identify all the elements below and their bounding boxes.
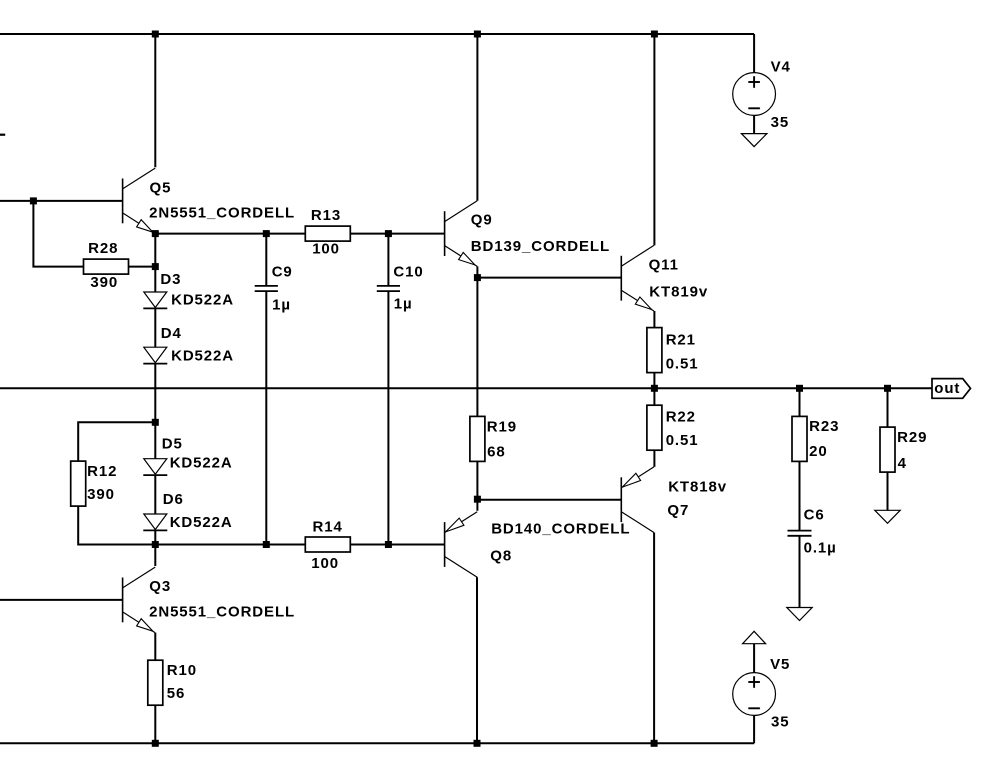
wire Q7 collector to bottom rail xyxy=(653,533,655,744)
wire V5 minus to bottom rail xyxy=(753,715,755,743)
diode D5 (KD522A) xyxy=(143,459,167,475)
wire output rail to R23 xyxy=(799,388,801,416)
junction C10 top xyxy=(385,230,392,237)
svg-text:KT818v: KT818v xyxy=(668,478,727,495)
svg-text:Q3: Q3 xyxy=(149,578,171,595)
svg-text:Q11: Q11 xyxy=(649,257,679,274)
junction bottom rail / R10 xyxy=(152,740,159,747)
svg-text:KD522A: KD522A xyxy=(170,514,233,531)
svg-text:Q5: Q5 xyxy=(150,180,172,197)
junction Q5 emitter node xyxy=(152,230,159,237)
transistor Q11 (KT819v) xyxy=(621,245,654,311)
capacitor C6 xyxy=(788,531,812,536)
resistor R29 xyxy=(880,427,895,472)
wire R19 to lower driver node xyxy=(476,461,478,499)
svg-text:R14: R14 xyxy=(313,519,343,536)
svg-text:0.1µ: 0.1µ xyxy=(804,539,837,556)
wire Q5 emitter node to D3 xyxy=(154,234,156,292)
diode D6 (KD522A) xyxy=(143,514,167,530)
svg-text:20: 20 xyxy=(809,443,828,460)
junction output rail / R21-R22 xyxy=(651,385,658,392)
wire D6 to lower bias node xyxy=(154,531,156,545)
transistor Q5 (2N5551) xyxy=(123,168,156,234)
wire R14 to Q8 base xyxy=(350,544,444,546)
resistor R10 xyxy=(148,660,163,705)
wire D5 to D6 xyxy=(154,476,156,514)
wire bias node to R12 top xyxy=(78,422,155,461)
wire Q3 base xyxy=(0,599,123,601)
wire node to R19 (crosses output rail) xyxy=(476,278,478,417)
svg-text:C10: C10 xyxy=(393,263,423,280)
wire R13 to Q9 base xyxy=(350,233,444,235)
wire lower driver node to Q8 emitter xyxy=(476,499,478,511)
svg-text:C9: C9 xyxy=(272,264,293,281)
wire R23 to C6 xyxy=(799,461,801,530)
svg-text:D4: D4 xyxy=(161,325,182,342)
junction C9 top xyxy=(263,230,270,237)
svg-text:R21: R21 xyxy=(666,332,696,349)
svg-text:4: 4 xyxy=(898,455,907,472)
voltage source V5 xyxy=(733,673,776,716)
junction top rail / Q11 collector xyxy=(651,31,658,38)
junction R28 / diode column xyxy=(152,263,159,270)
wire C9 top lead xyxy=(265,234,267,286)
svg-text:R22: R22 xyxy=(666,408,696,425)
wire V4 top lead xyxy=(753,34,755,73)
resistor R23 xyxy=(792,416,807,461)
svg-text:D6: D6 xyxy=(163,491,184,508)
svg-text:KD522A: KD522A xyxy=(170,455,233,472)
svg-text:56: 56 xyxy=(167,685,186,702)
wire C10 bottom lead xyxy=(387,291,389,544)
wire driver node to Q11 base xyxy=(477,277,621,279)
resistor R21 xyxy=(647,328,662,373)
junction Q9 emitter node xyxy=(474,274,481,281)
wire Q11 collector to top rail xyxy=(653,34,655,245)
svg-text:R28: R28 xyxy=(88,240,118,257)
wire Q11 emitter to R21 xyxy=(653,311,655,328)
junction top rail / Q5 collector xyxy=(152,31,159,38)
wire R22 to Q7 emitter xyxy=(653,450,655,467)
svg-text:out: out xyxy=(934,380,960,397)
wire Q5 base xyxy=(0,200,123,202)
wire output rail to R22 xyxy=(653,388,655,405)
diode D4 (KD522A) xyxy=(143,347,167,363)
svg-text:R13: R13 xyxy=(311,207,341,224)
wire C6 to ground xyxy=(799,536,801,608)
wire bottom supply rail xyxy=(0,742,754,744)
svg-text:390: 390 xyxy=(90,274,118,291)
wire Q9 collector to top rail xyxy=(476,34,478,201)
transistor Q9 (BD139) xyxy=(445,201,478,267)
wire V4 minus lead xyxy=(753,115,755,133)
resistor R19 xyxy=(470,416,485,461)
svg-text:35: 35 xyxy=(771,114,790,131)
resistor R14 xyxy=(305,537,350,552)
svg-text:R10: R10 xyxy=(167,662,197,679)
wire Q5 base to R28 xyxy=(33,201,83,267)
wire output rail to R29 xyxy=(887,388,889,427)
wire R21 to output rail xyxy=(653,373,655,389)
wire Q9 emitter to node xyxy=(476,266,478,277)
junction bias node upper xyxy=(152,419,159,426)
node out (output flag) xyxy=(932,379,971,399)
svg-text:V5: V5 xyxy=(770,656,790,673)
svg-text:100: 100 xyxy=(312,241,340,258)
wire top supply rail xyxy=(0,33,754,35)
svg-text:Q7: Q7 xyxy=(667,502,689,519)
resistor R12 xyxy=(71,461,86,506)
wire stub at left edge (cropped minus sign) xyxy=(0,134,5,136)
wire lower node to R14 xyxy=(155,544,305,546)
svg-text:R29: R29 xyxy=(897,429,927,446)
resistor R28 xyxy=(84,259,129,274)
node arrow above V5 xyxy=(743,631,766,643)
ground below R29 xyxy=(875,510,900,523)
junction output rail / R29 xyxy=(884,385,891,392)
svg-text:Q8: Q8 xyxy=(490,547,512,564)
junction lower bias node xyxy=(152,541,159,548)
transistor Q7 (KT818v) xyxy=(621,467,654,533)
svg-text:KD522A: KD522A xyxy=(171,292,234,309)
svg-text:68: 68 xyxy=(487,444,506,461)
ground below C6 xyxy=(787,608,812,621)
wire R28 to node xyxy=(129,266,156,268)
wire V5 plus lead xyxy=(753,644,755,673)
wire R10 to bottom rail xyxy=(154,705,156,743)
wire middle output rail xyxy=(0,387,932,389)
junction C10 bottom xyxy=(385,541,392,548)
svg-text:V4: V4 xyxy=(771,59,791,76)
voltage source V4 xyxy=(733,73,776,116)
svg-text:KD522A: KD522A xyxy=(171,348,234,365)
svg-text:35: 35 xyxy=(771,714,790,731)
transistor Q3 (2N5551) xyxy=(123,567,156,633)
junction Q5 base / R28 branch xyxy=(30,197,37,204)
svg-text:1µ: 1µ xyxy=(394,296,413,313)
svg-text:100: 100 xyxy=(311,555,339,572)
wire Q3 emitter to R10 xyxy=(154,633,156,661)
capacitor C9 xyxy=(255,286,278,291)
svg-text:R23: R23 xyxy=(809,418,839,435)
wire R12 bottom to lower node xyxy=(78,506,155,545)
wire D4 through rail to bias node xyxy=(154,364,156,422)
capacitor C10 xyxy=(377,286,400,291)
junction C9 bottom xyxy=(263,541,270,548)
svg-text:C6: C6 xyxy=(804,507,825,524)
junction bottom rail / Q8 collector xyxy=(474,740,481,747)
svg-text:R19: R19 xyxy=(487,419,517,436)
ground below V4 xyxy=(741,134,767,147)
wire Q5 collector to top rail xyxy=(154,34,156,167)
svg-text:1µ: 1µ xyxy=(272,297,291,314)
wire Q7 base xyxy=(477,499,621,501)
svg-text:2N5551_CORDELL: 2N5551_CORDELL xyxy=(149,604,295,621)
junction Q8 emitter node xyxy=(474,496,481,503)
junction bottom rail / Q7 collector xyxy=(651,740,658,747)
resistor R13 xyxy=(305,226,350,241)
wire bias node to D5 xyxy=(154,422,156,458)
svg-text:D3: D3 xyxy=(160,271,181,288)
svg-text:0.51: 0.51 xyxy=(666,356,699,373)
resistor R22 xyxy=(647,405,662,450)
wire lower bias node to Q3 collector xyxy=(154,545,156,567)
svg-text:BD140_CORDELL: BD140_CORDELL xyxy=(491,521,630,538)
svg-text:R12: R12 xyxy=(87,463,117,480)
junction output rail / R23 xyxy=(796,385,803,392)
transistor Q8 (BD140) xyxy=(445,512,478,578)
wire C10 top lead xyxy=(387,234,389,286)
junction top rail / Q9 collector xyxy=(474,31,481,38)
wire R29 to ground xyxy=(887,472,889,510)
svg-text:390: 390 xyxy=(87,486,115,503)
wire Q5 emitter to R13 xyxy=(155,233,305,235)
wire Q8 collector to bottom rail xyxy=(476,577,478,743)
wire D3 to D4 xyxy=(154,309,156,347)
diode D3 (KD522A) xyxy=(143,292,167,308)
svg-text:0.51: 0.51 xyxy=(666,432,699,449)
wire C9 bottom lead xyxy=(265,291,267,544)
svg-text:BD139_CORDELL: BD139_CORDELL xyxy=(471,238,610,255)
svg-text:KT819v: KT819v xyxy=(649,284,708,301)
svg-text:2N5551_CORDELL: 2N5551_CORDELL xyxy=(149,205,295,222)
svg-text:D5: D5 xyxy=(162,436,183,453)
svg-text:Q9: Q9 xyxy=(471,211,493,228)
